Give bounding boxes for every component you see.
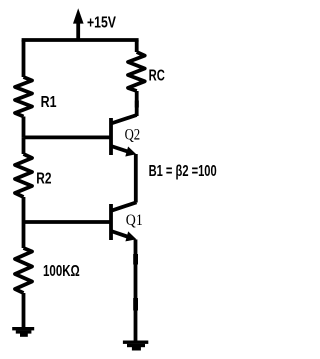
svg-text:B1 = β2 =100: B1 = β2 =100 [149,163,217,180]
svg-text:R1: R1 [41,94,57,111]
svg-text:R2: R2 [36,170,51,187]
svg-text:Q2: Q2 [125,127,141,144]
svg-text:+15V: +15V [87,15,117,32]
svg-text:RC: RC [149,67,165,84]
svg-text:100KΩ: 100KΩ [43,263,80,280]
svg-text:Q1: Q1 [126,212,143,229]
